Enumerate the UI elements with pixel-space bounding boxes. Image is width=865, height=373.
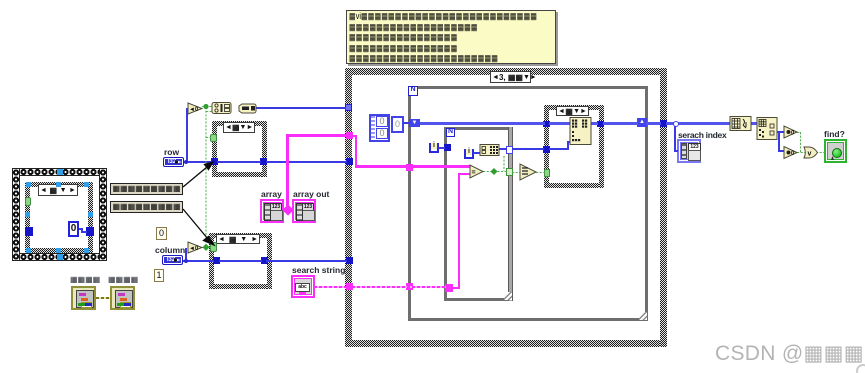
svg-text:◄0: ◄0: [189, 246, 199, 252]
svg-text:◄0: ◄0: [189, 107, 199, 113]
svg-text:=: =: [472, 170, 476, 177]
svg-text:v: v: [808, 151, 812, 158]
